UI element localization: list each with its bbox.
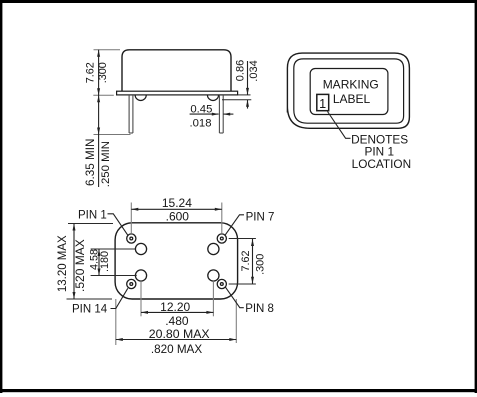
pin 1 circle [127,234,136,243]
dimension 0.86/.034: dimension line [247,61,249,109]
leader line from pin 1 box to DENOTES note [328,112,351,139]
arrowheads for vertical side dims [97,50,100,135]
standoff circle bottom-right [208,270,219,281]
svg-text:PIN 7: PIN 7 [246,211,275,223]
svg-text:.180: .180 [99,251,111,272]
side view: base plate [117,91,238,95]
svg-text:7.62: 7.62 [240,250,252,271]
dimension 7.62 bottom view: dimension line [252,239,254,284]
pin 1 indicator box [317,94,329,110]
svg-text:LABEL: LABEL [333,92,371,106]
svg-text:LOCATION: LOCATION [352,157,411,171]
svg-text:.300: .300 [254,254,266,275]
dimension 13.20 MAX: dimension line [73,224,75,300]
top view: inner case edge [294,59,404,123]
svg-text:.034: .034 [248,60,260,81]
standoff circle bottom-left [135,270,146,281]
svg-text:.520 MAX: .520 MAX [73,239,87,292]
pin 7 circle [217,234,226,243]
dimension 15.24/.600: extension lines [131,203,222,234]
svg-text:15.24: 15.24 [162,196,192,210]
dimension 7.62/.300 body height: extension lines [93,50,130,135]
top view: outer case outline [287,53,409,128]
dimension 0.86/.034 standoff: extension lines [222,95,251,100]
svg-text:20.80 MAX: 20.80 MAX [149,327,210,341]
side view: right pin [219,95,223,133]
dimension 13.20 MAX/.520 MAX: extension lines [67,224,114,300]
svg-text:.480: .480 [165,314,189,328]
side view: oscillator body (can) [122,50,231,91]
dimension 15.24/.600: dimension line [131,208,222,210]
svg-text:0.86: 0.86 [235,60,247,81]
svg-text:MARKING: MARKING [323,78,379,92]
side view: right standoff bump [207,95,218,101]
dimension 12.20/.480: extension lines [141,281,213,316]
svg-text:13.20 MAX: 13.20 MAX [57,235,69,292]
svg-text:.600: .600 [166,210,190,224]
dimension 20.80 MAX: dimension line [116,339,237,341]
pin 14 circle [127,279,136,288]
side view: left pin [129,95,133,133]
pin 8 circle [217,279,226,288]
svg-text:PIN 14: PIN 14 [72,304,108,316]
svg-text:.300: .300 [97,62,109,83]
dimension 20.80 MAX/.820 MAX: extension lines [116,299,237,345]
bottom view: package outline [115,223,238,299]
dimension 4.58/.180: dimension line [98,249,100,276]
top view: marking label area [310,69,388,115]
svg-text:0.45: 0.45 [190,104,212,116]
svg-text:.250 MIN: .250 MIN [100,141,112,187]
svg-text:1: 1 [319,97,326,111]
side view: left standoff bump [135,95,146,101]
dimension 7.62/.300 (bottom view): extension lines [229,239,256,285]
dimension 12.20: dimension line [141,311,213,313]
dimension 7.62/.300 and 6.35MIN: dimension line [98,50,100,187]
standoff circle top-left [135,243,146,254]
dimension 4.58/.180: extension lines [91,249,137,276]
svg-text:PIN 8: PIN 8 [245,303,274,315]
svg-text:7.62: 7.62 [84,62,96,83]
svg-text:12.20: 12.20 [160,300,190,314]
dimension 0.45/.018 pin width [190,113,234,115]
standoff circle top-right [208,243,219,254]
svg-text:.018: .018 [190,117,212,129]
svg-text:6.35 MIN: 6.35 MIN [84,139,97,186]
svg-text:PIN 1: PIN 1 [78,209,107,221]
svg-text:.820 MAX: .820 MAX [151,343,203,356]
